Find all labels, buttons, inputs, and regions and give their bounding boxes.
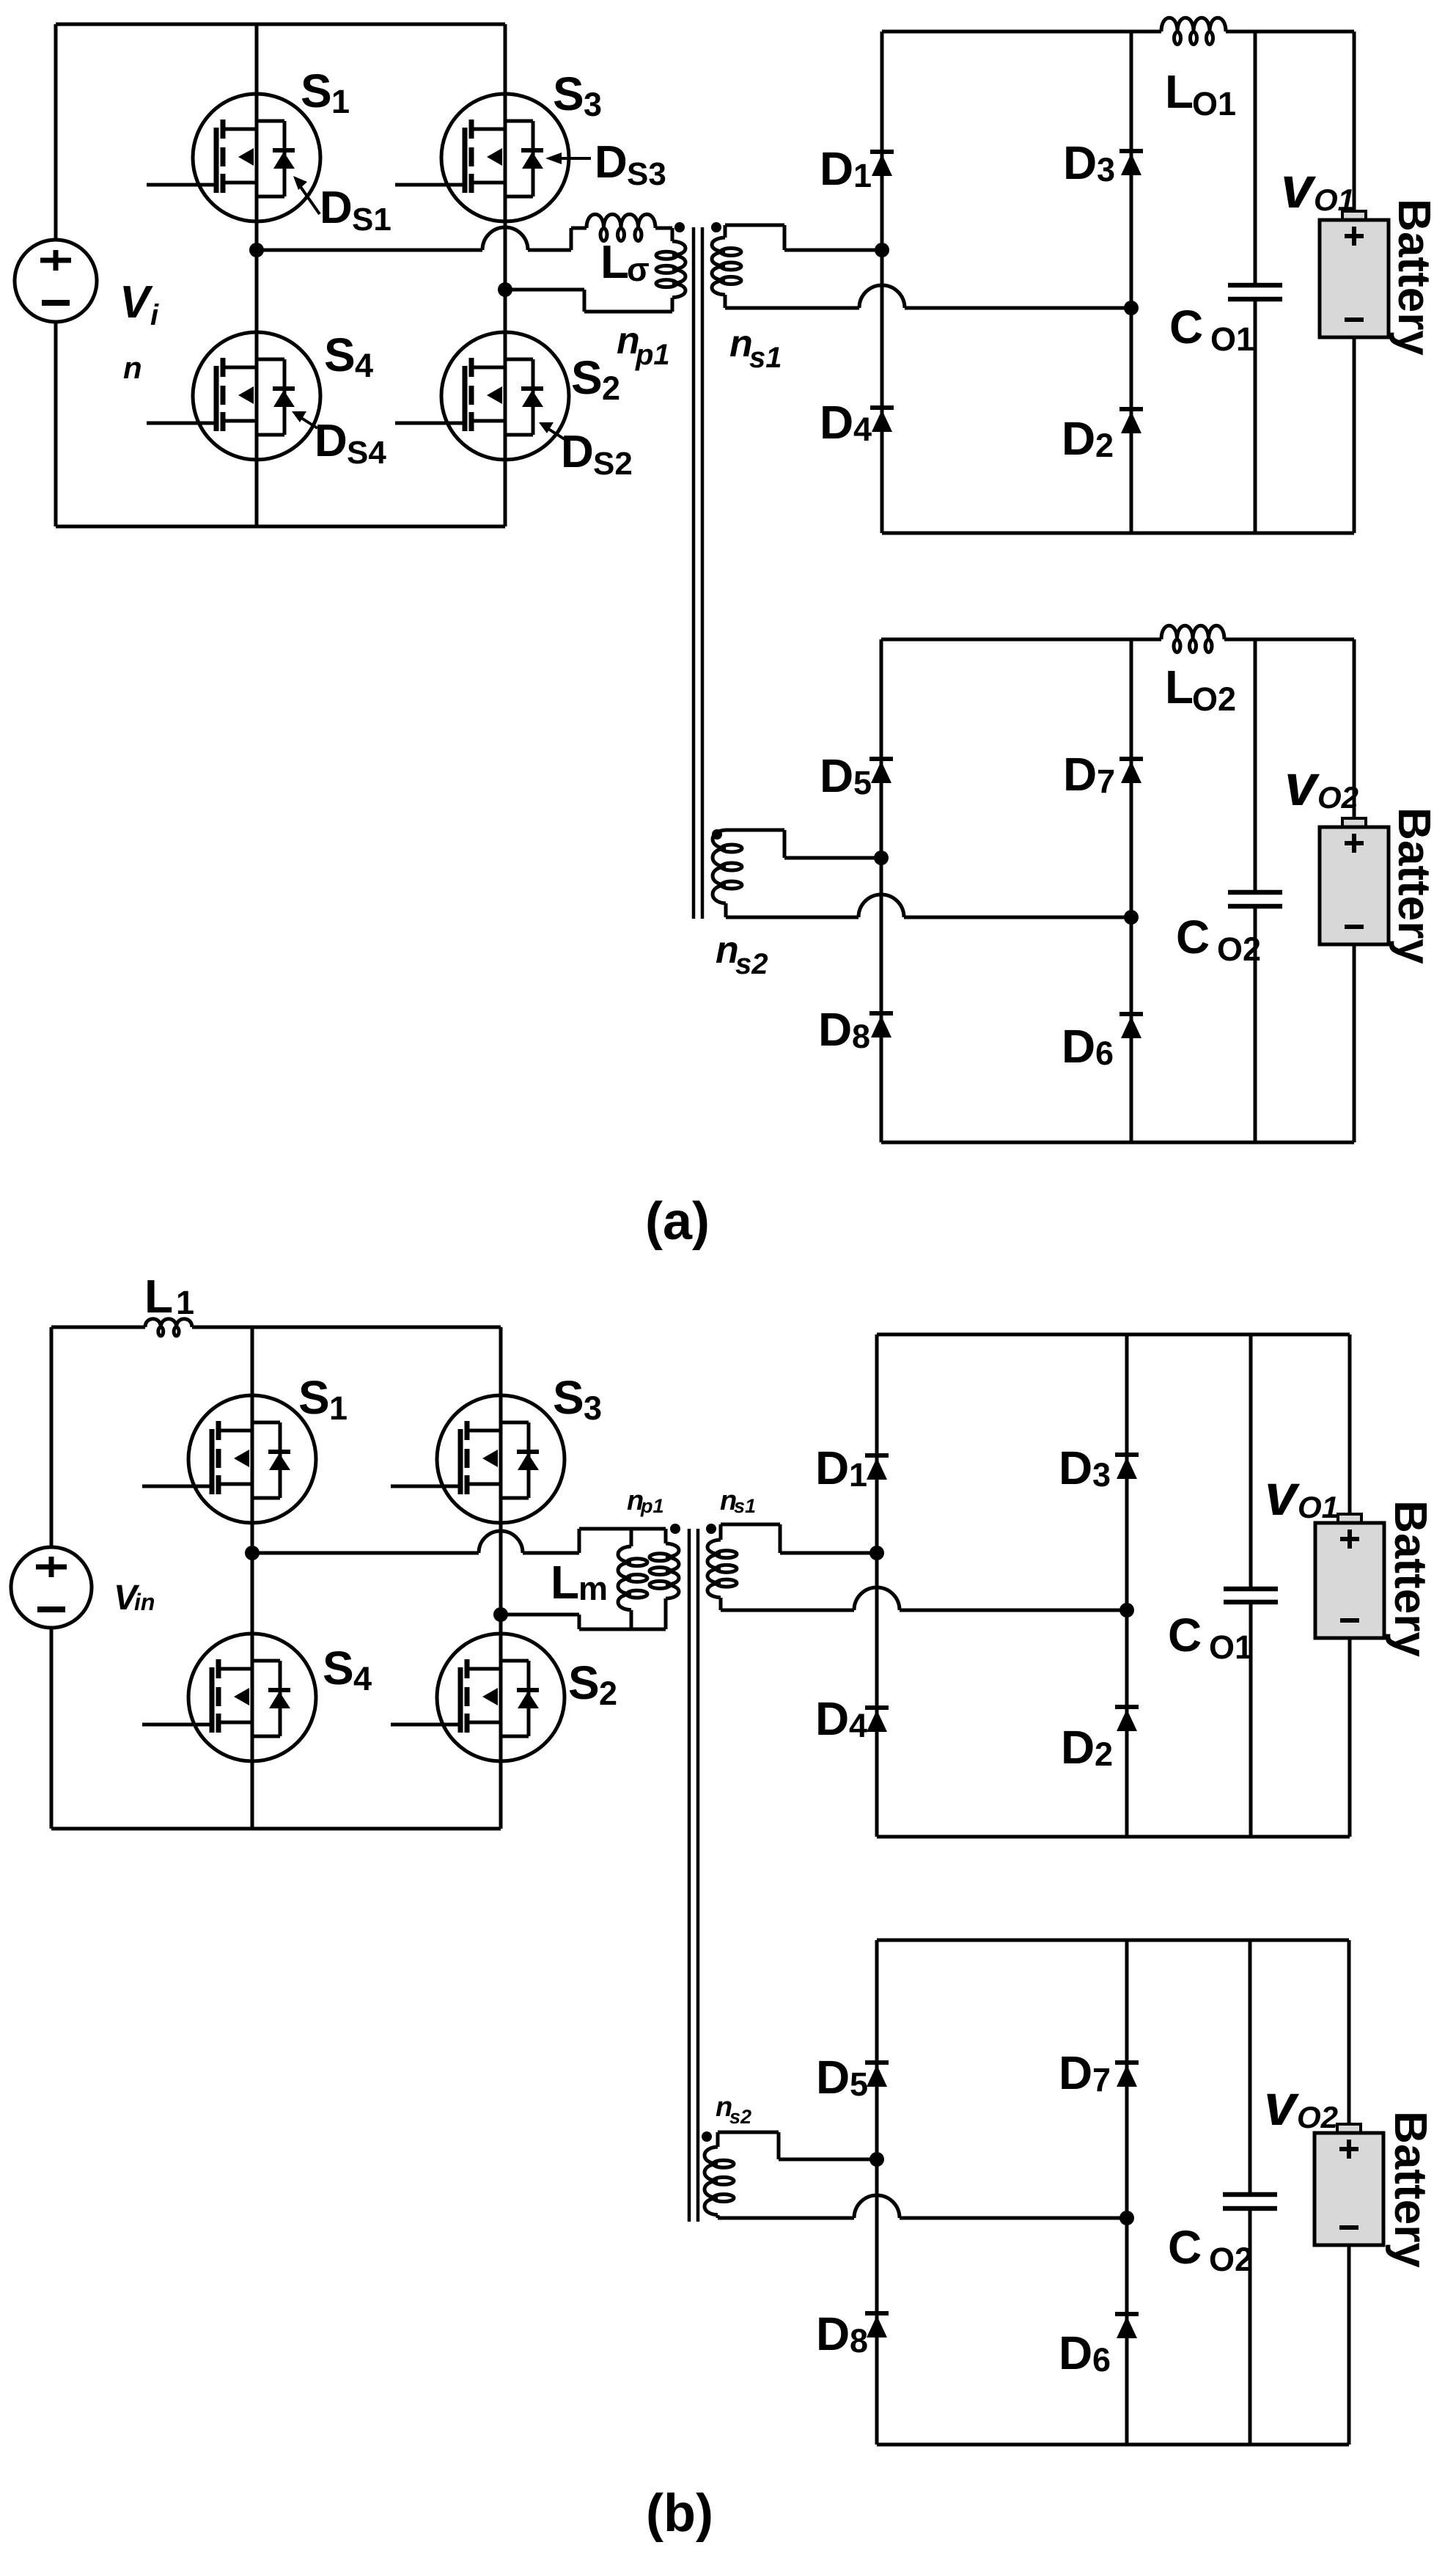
svg-text:S: S: [301, 65, 332, 117]
svg-text:2: 2: [1095, 427, 1114, 464]
svg-text:(b): (b): [646, 2484, 713, 2543]
svg-text:D: D: [1059, 2327, 1092, 2379]
diode D4: [870, 408, 894, 432]
svg-text:L: L: [1165, 661, 1194, 713]
svg-text:C: C: [1176, 911, 1210, 963]
svg-text:5: 5: [850, 2065, 868, 2103]
wire: CO2b leg lower: [1249, 2208, 1252, 2445]
svg-text:O2: O2: [1317, 780, 1358, 815]
svg-text:D: D: [815, 1692, 849, 1745]
wire: (b) left rail upper: [50, 1327, 54, 1548]
svg-text:O1: O1: [1192, 85, 1236, 122]
svg-text:S3: S3: [627, 156, 666, 192]
svg-text:O2: O2: [1192, 680, 1236, 718]
svg-text:C: C: [1168, 1609, 1202, 1661]
svg-text:7: 7: [1092, 2061, 1111, 2098]
polarity dot ns2 (b): [702, 2131, 712, 2142]
svg-text:O2: O2: [1217, 930, 1261, 968]
winding ns1 (secondary 1): [712, 238, 725, 295]
svg-text:v: v: [1265, 1462, 1301, 1527]
wire hop over S3 leg: [482, 227, 528, 250]
svg-text:O1: O1: [1210, 320, 1254, 358]
svg-text:L: L: [1165, 65, 1194, 118]
wire hop over D5 leg: [858, 895, 904, 917]
svg-text:Battery: Battery: [1385, 1500, 1435, 1657]
winding ns1 (b): [707, 1540, 721, 1598]
junction: ns1 bottom at D3 leg: [1124, 301, 1139, 315]
wire: ns2 top stub (b): [716, 2132, 720, 2147]
battery 1 (b): [1315, 1514, 1384, 1638]
wire hop over S3 leg (b): [479, 1531, 523, 1553]
transistor S3 (b): [391, 1395, 565, 1523]
svg-text:S: S: [568, 1656, 600, 1709]
transistor S2 (b): [391, 1634, 565, 1761]
svg-text:3: 3: [1097, 151, 1115, 188]
wire: CO2 leg lower: [1254, 906, 1257, 1142]
winding np1 (b): [666, 1543, 679, 1598]
junction: ns2 bottom at D7 leg (b): [1119, 2211, 1134, 2225]
transformer core (b): [688, 1529, 691, 2222]
svg-text:O2: O2: [1209, 2241, 1253, 2278]
wire: rect1b left leg: [875, 1334, 879, 1837]
svg-text:C: C: [1168, 2221, 1202, 2274]
svg-text:D: D: [820, 749, 853, 802]
svg-text:Battery: Battery: [1389, 199, 1439, 356]
junction node B (S3-S2 midpoint): [498, 282, 512, 297]
svg-text:2: 2: [602, 370, 620, 407]
wire: ns1 bottom stub (b): [719, 1598, 723, 1610]
svg-text:D: D: [595, 137, 628, 188]
wire: hop to riser (b): [523, 1551, 579, 1555]
wire: ns2 top lead to rectifier: [784, 856, 881, 860]
wire: np1 bottom stub (b): [664, 1598, 668, 1629]
svg-text:6: 6: [1095, 1035, 1114, 1072]
svg-text:s1: s1: [749, 342, 782, 374]
svg-text:D: D: [1061, 1721, 1095, 1774]
diode D5: [869, 759, 893, 783]
svg-text:3: 3: [1092, 1456, 1111, 1494]
wire: riser up: [570, 228, 573, 250]
wire: rect2b left leg: [875, 1940, 879, 2445]
wire: node B down (b): [578, 1615, 581, 1629]
winding np1 (primary): [672, 241, 685, 298]
polarity dot ns1 (b): [706, 1524, 716, 1534]
svg-text:D: D: [320, 183, 353, 233]
wire: ns1 top stub (b): [719, 1524, 723, 1540]
wire: (b) left rail lower: [50, 1627, 54, 1829]
wire: ns1 bottom lead: [725, 306, 859, 310]
svg-text:L: L: [551, 1556, 579, 1609]
wire: CO1b leg lower: [1249, 1602, 1253, 1837]
svg-text:D: D: [315, 416, 348, 466]
svg-text:4: 4: [353, 1660, 372, 1697]
wire: battery1b leg lower: [1348, 1638, 1352, 1837]
wire: rect2b bottom rail: [877, 2443, 1349, 2447]
diode D8 (b): [865, 2313, 889, 2338]
transistor S2: [395, 332, 569, 460]
diode D1: [870, 152, 894, 176]
wire: ns2 top lead: [726, 829, 784, 832]
inductor Lsigma: [587, 214, 655, 228]
wire: (b) top rail left: [51, 1326, 145, 1329]
svg-text:1: 1: [176, 1284, 194, 1321]
wire: ns2 bottom lead: [726, 916, 858, 919]
svg-text:3: 3: [584, 1389, 602, 1427]
svg-text:D: D: [1059, 2046, 1092, 2099]
capacitor CO1 (b): [1224, 1589, 1278, 1602]
wire: (b) S1/S4 leg: [251, 1327, 254, 1829]
svg-text:Battery: Battery: [1385, 2111, 1435, 2268]
junction node A (b): [245, 1546, 260, 1560]
svg-text:in: in: [134, 1589, 155, 1615]
wire: node A to hop (b): [252, 1551, 479, 1555]
wire: rect1b bottom rail: [877, 1835, 1350, 1839]
wire: riser to Lsigma: [571, 227, 587, 230]
wire: battery2b leg lower: [1347, 2245, 1351, 2445]
svg-text:O1: O1: [1209, 1628, 1253, 1666]
svg-text:V: V: [120, 277, 153, 328]
diode D2 (b): [1115, 1707, 1139, 1731]
diode D7: [1119, 759, 1143, 783]
wire: CO1 leg lower: [1254, 299, 1257, 533]
svg-text:S: S: [323, 1642, 354, 1694]
svg-text:i: i: [150, 299, 159, 331]
wire: node A to hop: [257, 249, 482, 252]
capacitor CO1: [1228, 285, 1282, 299]
wire: ns1 bottom stub: [724, 295, 727, 308]
wire: ns2 top lead (b): [718, 2131, 779, 2134]
inductor L1: [145, 1319, 192, 1327]
svg-text:D: D: [816, 2051, 850, 2104]
polarity dot ns1: [711, 222, 721, 232]
wire: np1 bottom stub: [671, 298, 674, 312]
wire: hop to Lsigma riser: [528, 249, 571, 252]
svg-text:D: D: [1062, 412, 1095, 465]
svg-text:D: D: [820, 396, 853, 449]
diode D7 (b): [1115, 2063, 1139, 2087]
wire: rect1b D3/D2 leg: [1125, 1334, 1129, 1837]
wire: rect1 D3/D2 leg: [1130, 32, 1133, 533]
svg-text:S4: S4: [347, 435, 386, 471]
transistor S4: [147, 332, 320, 460]
transistor S1: [147, 94, 320, 221]
transistor S1 (b): [142, 1395, 316, 1523]
svg-text:2: 2: [599, 1675, 617, 1712]
junction: ns1 top at D1 leg (b): [869, 1546, 884, 1560]
inductor LO2: [1161, 625, 1224, 639]
battery 2 (b): [1315, 2124, 1383, 2245]
junction: ns2 bottom at D7 leg: [1124, 910, 1139, 925]
svg-text:6: 6: [1092, 2341, 1111, 2379]
wire: (b) S3/S2 leg: [499, 1327, 503, 1829]
wire: (b) bottom rail: [51, 1827, 501, 1831]
wire: (a) left rail lower: [54, 320, 58, 526]
polarity dot ns2: [712, 829, 722, 840]
wire hop over D1 leg: [859, 285, 905, 308]
diode D6 (b): [1115, 2314, 1139, 2338]
svg-text:D: D: [1062, 1020, 1095, 1073]
svg-text:1: 1: [853, 157, 872, 194]
diode D3: [1119, 151, 1143, 175]
wire: ns1 top lead to rectifier (b): [780, 1551, 877, 1555]
wire hop over D1 leg (b): [854, 1587, 900, 1610]
wire: ns1 bottom lead to D3 leg (b): [900, 1609, 1127, 1612]
wire: rect2b D7/D6 leg: [1125, 1940, 1129, 2445]
svg-text:D: D: [1063, 748, 1097, 801]
polarity dot np1: [674, 222, 685, 232]
wire: rect2 top rail right: [1224, 638, 1354, 642]
wire: rect2 D7/D6 leg: [1130, 639, 1133, 1142]
wire: np1 top stub: [671, 228, 674, 241]
transistor S4 (b): [142, 1634, 316, 1761]
svg-text:v: v: [1284, 752, 1320, 818]
inductor Lm (magnetizing): [618, 1546, 631, 1610]
diode D1 (b): [865, 1455, 889, 1480]
wire: CO2 leg upper: [1254, 639, 1257, 892]
svg-text:S2: S2: [593, 446, 633, 482]
svg-text:O1: O1: [1314, 183, 1355, 217]
svg-text:n: n: [123, 350, 142, 385]
svg-text:σ: σ: [627, 251, 650, 288]
svg-text:p1: p1: [640, 1495, 664, 1517]
svg-text:D: D: [1059, 1442, 1092, 1494]
junction node B (b): [493, 1607, 508, 1622]
svg-text:L: L: [144, 1270, 173, 1323]
wire: rect1 bottom rail: [882, 532, 1354, 535]
wire: (b) top rail: [192, 1326, 501, 1329]
svg-text:4: 4: [853, 411, 872, 448]
wire: (a) S3/S2 leg: [504, 24, 507, 526]
wire: np1 top stub (b): [664, 1529, 668, 1543]
svg-text:S: S: [553, 1371, 584, 1424]
wire: battery1 leg lower: [1353, 337, 1356, 533]
inductor LO1: [1161, 18, 1226, 32]
winding ns2 (secondary 2): [713, 830, 726, 903]
diode D6: [1119, 1014, 1143, 1038]
wire: node B right (b): [501, 1613, 579, 1617]
wire: ns1 top stub: [724, 225, 727, 238]
wire: ns2 top lead to rectifier (b): [779, 2158, 877, 2162]
junction: ns2 top at D5 leg: [874, 851, 889, 865]
junction: ns1 top at D1 leg: [875, 243, 889, 257]
svg-text:s2: s2: [729, 2106, 751, 2128]
wire: node B down: [583, 290, 587, 312]
capacitor CO2: [1228, 892, 1282, 906]
wire: rect2b top rail: [877, 1939, 1349, 1942]
svg-text:v: v: [1281, 155, 1317, 220]
wire hop over D5 leg (b): [854, 2195, 900, 2218]
wire: (a) top rail: [56, 23, 505, 26]
wire: ns1 top lead down: [783, 225, 787, 250]
svg-text:5: 5: [853, 764, 872, 801]
wire: riser up (b): [578, 1529, 581, 1553]
svg-text:O1: O1: [1298, 1490, 1339, 1524]
wire: (a) bottom rail: [56, 525, 505, 529]
wire: rect2 left leg (D5/D8): [880, 639, 883, 1142]
wire: Lm top branch: [630, 1529, 633, 1546]
svg-text:D: D: [561, 427, 594, 477]
wire: battery2 leg upper: [1353, 639, 1356, 818]
svg-text:S: S: [571, 351, 603, 404]
svg-text:S: S: [324, 328, 356, 381]
battery 2 (output 2): [1320, 818, 1389, 944]
polarity dot np1 (b): [670, 1524, 680, 1534]
wire: battery1 leg upper: [1353, 32, 1356, 211]
wire: Lsigma to np1 corner: [655, 227, 672, 230]
wire: ns1 top lead (b): [721, 1523, 780, 1527]
wire: bottom link to np1 (b): [579, 1628, 666, 1631]
svg-text:S1: S1: [352, 202, 391, 238]
wire: battery2b leg upper: [1347, 1940, 1351, 2124]
diode D4 (b): [865, 1708, 889, 1732]
wire: battery1b leg upper: [1348, 1334, 1352, 1514]
svg-text:D: D: [816, 2307, 850, 2360]
wire: node B right: [505, 288, 584, 292]
wire: (a) left rail upper: [54, 24, 58, 241]
svg-text:C: C: [1169, 301, 1203, 353]
svg-text:D: D: [815, 1442, 849, 1494]
svg-text:S: S: [298, 1371, 330, 1424]
diode D8: [869, 1013, 893, 1038]
svg-text:1: 1: [849, 1456, 867, 1494]
svg-text:4: 4: [849, 1707, 867, 1744]
svg-text:8: 8: [852, 1018, 870, 1055]
wire: Lm bottom branch: [630, 1610, 633, 1629]
wire: ns1 bottom lead (b): [721, 1609, 854, 1612]
wire: rect1 top rail: [882, 30, 1161, 34]
svg-text:(a): (a): [645, 1192, 710, 1251]
svg-text:D: D: [820, 142, 853, 195]
junction: ns1 bottom at D3 leg (b): [1119, 1603, 1134, 1617]
wire: rect2 bottom rail: [881, 1141, 1354, 1145]
svg-text:v: v: [1264, 2072, 1300, 2137]
wire: ns1 top lead down (b): [779, 1524, 782, 1553]
wire: top link to np1 (b): [579, 1527, 666, 1531]
winding ns2 (b): [705, 2147, 718, 2215]
diode D3 (b): [1115, 1455, 1139, 1479]
transformer core: [692, 227, 696, 919]
svg-text:D: D: [1063, 136, 1097, 189]
wire: ns1 top lead to rectifier: [784, 249, 882, 252]
wire: rect1 top rail right: [1226, 30, 1354, 34]
svg-text:O2: O2: [1297, 2100, 1338, 2134]
svg-text:D: D: [818, 1003, 852, 1056]
wire: ns2 bottom stub: [724, 903, 728, 917]
svg-text:s2: s2: [735, 948, 768, 980]
wire: CO1 leg upper: [1254, 32, 1257, 285]
wire: ns2 bottom lead to D7 leg: [904, 916, 1131, 919]
voltage source Vin: [11, 1547, 92, 1628]
wire: ns1 top lead: [725, 224, 784, 227]
junction: ns2 top at D5 leg (b): [869, 2152, 884, 2167]
diode D5 (b): [865, 2063, 889, 2087]
wire: CO2b leg upper: [1249, 1940, 1252, 2195]
wire: (a) S1/S4 leg: [255, 24, 259, 526]
wire: rect1 left leg (D1/D4): [880, 32, 884, 533]
svg-text:3: 3: [584, 86, 602, 123]
wire: rect2 top rail: [881, 638, 1161, 642]
svg-text:L: L: [600, 235, 629, 288]
diode D2: [1119, 409, 1143, 433]
wire: battery2 leg lower: [1353, 944, 1356, 1142]
voltage source Vi: [15, 240, 97, 322]
svg-text:7: 7: [1097, 763, 1115, 800]
wire: to np1 bottom: [584, 310, 672, 314]
wire: ns2 top lead down: [783, 830, 787, 858]
wire: ns2 bottom lead (b): [718, 2217, 854, 2220]
junction node A (S1-S4 midpoint): [249, 243, 264, 257]
svg-text:s1: s1: [734, 1495, 756, 1517]
wire: ns2 top lead down (b): [777, 2132, 781, 2159]
svg-text:4: 4: [355, 347, 373, 384]
wire: ns2 bottom lead to D7 leg (b): [900, 2217, 1127, 2220]
svg-text:Battery: Battery: [1389, 807, 1439, 964]
svg-text:p1: p1: [635, 339, 670, 371]
svg-text:2: 2: [1095, 1736, 1113, 1773]
wire: rect1b top rail: [877, 1333, 1350, 1337]
svg-text:m: m: [578, 1570, 608, 1607]
wire: CO1b leg upper: [1249, 1334, 1253, 1589]
svg-text:1: 1: [331, 83, 350, 120]
wire: ns1 bottom lead to D3 leg: [905, 306, 1131, 310]
wire: ns2 bottom stub (b): [716, 2215, 720, 2218]
svg-text:1: 1: [329, 1389, 348, 1427]
svg-text:8: 8: [850, 2322, 868, 2359]
capacitor CO2 (b): [1223, 2195, 1277, 2208]
transistor S3: [395, 94, 569, 221]
svg-text:S: S: [553, 67, 584, 120]
battery 1 (output 1): [1320, 211, 1389, 337]
